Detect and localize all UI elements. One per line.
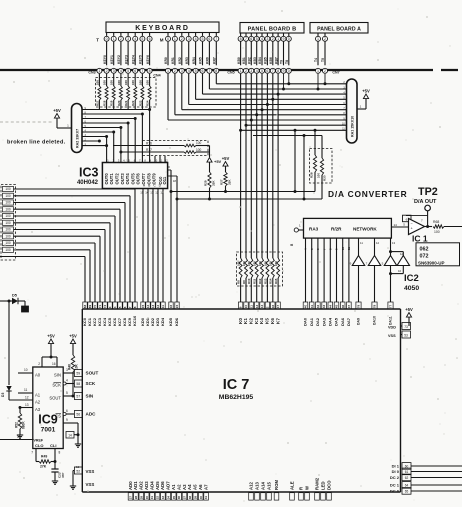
svg-text:100: 100 (269, 261, 273, 266)
svg-text:57: 57 (76, 394, 80, 398)
svg-text:1: 1 (240, 69, 242, 73)
svg-text:DA6: DA6 (340, 317, 345, 326)
svg-text:KEY0: KEY0 (103, 55, 107, 64)
svg-text:T8: T8 (285, 60, 289, 64)
svg-text:A14: A14 (260, 482, 265, 490)
svg-text:45: 45 (335, 305, 339, 309)
svg-text:KB3: KB3 (253, 57, 257, 64)
svg-text:2: 2 (324, 37, 326, 41)
svg-text:73: 73 (404, 325, 408, 329)
svg-text:65: 65 (405, 489, 409, 493)
svg-text:SCK: SCK (52, 383, 61, 388)
svg-text:10: 10 (24, 368, 28, 372)
svg-text:R30: R30 (323, 175, 327, 181)
svg-text:DA2: DA2 (315, 317, 320, 326)
svg-text:3: 3 (250, 69, 252, 73)
svg-text:CN7: CN7 (332, 71, 339, 75)
svg-text:OUT6: OUT6 (136, 173, 141, 185)
svg-text:062: 062 (420, 247, 429, 253)
svg-text:R9: R9 (242, 280, 246, 284)
svg-text:3: 3 (113, 69, 115, 73)
svg-text:42: 42 (316, 305, 320, 309)
wire - DA9-DA11 buffered lines to IC7 (356, 266, 393, 326)
svg-text:M: M (160, 38, 164, 43)
svg-text:D/A CONVERTER: D/A CONVERTER (328, 189, 407, 199)
svg-text:K5: K5 (265, 318, 270, 324)
svg-text:OUT1: OUT1 (109, 173, 114, 185)
svg-text:15: 15 (17, 435, 21, 439)
svg-text:KR5: KR5 (199, 57, 203, 64)
svg-text:11: 11 (360, 241, 363, 245)
svg-text:5: 5 (256, 37, 258, 41)
svg-text:0: 0 (288, 69, 290, 73)
svg-text:13: 13 (25, 403, 29, 407)
svg-text:100: 100 (110, 80, 114, 85)
svg-text:100: 100 (263, 261, 267, 266)
svg-text:KB0: KB0 (237, 57, 241, 64)
svg-text:KB2: KB2 (248, 57, 252, 64)
svg-text:KR2: KR2 (178, 57, 182, 64)
svg-text:100: 100 (5, 241, 11, 245)
test point TP2 (425, 205, 431, 226)
svg-text:KEY4: KEY4 (131, 55, 135, 64)
connector CN7 - panel board A pins (314, 33, 339, 75)
svg-text:100: 100 (5, 207, 11, 211)
wire - DA0-DA7 data lines RA3 to IC7 (304, 238, 351, 302)
svg-text:100: 100 (5, 228, 11, 232)
svg-text:100: 100 (5, 194, 11, 198)
svg-text:KC10: KC10 (132, 315, 137, 326)
svg-text:69: 69 (88, 305, 92, 309)
svg-text:12: 12 (155, 191, 159, 195)
svg-text:R22: R22 (131, 100, 135, 106)
svg-text:6: 6 (208, 37, 210, 41)
svg-text:DA5: DA5 (334, 317, 339, 326)
svg-text:T4: T4 (314, 58, 318, 62)
svg-text:A2: A2 (35, 400, 41, 405)
wire - main horizontal board boundary (0, 69, 458, 71)
svg-text:100: 100 (253, 261, 257, 266)
svg-text:KEY3: KEY3 (124, 55, 128, 64)
svg-text:5: 5 (127, 69, 129, 73)
IC7 bottom pins AD0-AD7 A1-A7 (128, 481, 209, 500)
svg-text:VSS: VSS (86, 482, 95, 487)
svg-text:ADC: ADC (86, 412, 97, 417)
svg-text:AD2: AD2 (139, 481, 144, 490)
svg-text:2: 2 (38, 362, 40, 366)
svg-text:2: 2 (174, 69, 176, 73)
svg-text:6: 6 (149, 37, 151, 41)
op-amp IC9 7001 A/D converter (33, 367, 63, 449)
svg-text:A7: A7 (203, 484, 208, 490)
svg-text:11: 11 (249, 305, 253, 309)
svg-text:0: 0 (288, 37, 290, 41)
svg-text:10K: 10K (74, 363, 78, 370)
svg-text:14: 14 (68, 434, 72, 438)
svg-text:2: 2 (120, 37, 122, 41)
svg-text:13: 13 (151, 305, 155, 309)
svg-text:24: 24 (175, 305, 179, 309)
svg-text:SCK: SCK (86, 381, 96, 386)
svg-text:DA0: DA0 (303, 317, 308, 326)
svg-text:100: 100 (131, 80, 135, 85)
svg-text:R21: R21 (124, 100, 128, 106)
svg-text:IC 1: IC 1 (412, 234, 428, 244)
svg-text:39: 39 (193, 496, 197, 500)
ground for C23 (54, 478, 56, 481)
svg-text:16: 16 (169, 305, 173, 309)
svg-text:KEY1: KEY1 (110, 55, 114, 64)
svg-text:5: 5 (261, 69, 263, 73)
svg-text:CLO: CLO (35, 443, 43, 448)
svg-text:IC3: IC3 (79, 166, 99, 180)
resistor bus 100 ohm array (left edge, dashed group) (1, 185, 16, 261)
svg-text:AD6: AD6 (160, 481, 165, 490)
svg-text:KEY2: KEY2 (117, 55, 121, 64)
node RA3 input pin 1 (290, 224, 304, 247)
svg-text:K2: K2 (249, 318, 254, 324)
resistor array R17-R24 100 ohm on CN3 lines (dashed group) (95, 74, 156, 109)
svg-text:AD0: AD0 (128, 481, 133, 490)
svg-text:18: 18 (173, 179, 177, 183)
svg-text:D/A OUT: D/A OUT (414, 199, 437, 205)
svg-text:100: 100 (103, 80, 107, 85)
svg-text:KD4: KD4 (160, 317, 165, 326)
svg-text:6: 6 (134, 69, 136, 73)
svg-text:2: 2 (106, 69, 108, 73)
svg-text:40H042: 40H042 (77, 180, 99, 186)
svg-text:3: 3 (266, 37, 268, 41)
svg-text:4: 4 (66, 379, 68, 383)
svg-text:77: 77 (389, 305, 393, 309)
svg-text:broken line deleted.: broken line deleted. (7, 140, 66, 146)
svg-text:29: 29 (139, 496, 143, 500)
svg-text:1: 1 (174, 37, 176, 41)
svg-text:R14: R14 (269, 278, 273, 284)
svg-text:KB7: KB7 (274, 57, 278, 64)
svg-text:R15: R15 (274, 278, 278, 284)
svg-text:R27: R27 (220, 179, 224, 185)
svg-text:100: 100 (316, 173, 320, 178)
svg-text:1: 1 (98, 69, 100, 73)
svg-text:15: 15 (140, 191, 144, 195)
connector CN3 - keyboard T header pins (96, 33, 152, 43)
wire - KR0..KR7 lines with labels (164, 42, 216, 66)
ground for IC7 VSS (72, 483, 74, 486)
svg-text:1: 1 (113, 37, 115, 41)
svg-text:6: 6 (250, 37, 252, 41)
resistor R48 10K pull-up (67, 334, 78, 398)
ground for D5 (22, 306, 29, 312)
svg-text:OUT3: OUT3 (120, 173, 125, 185)
svg-text:6: 6 (202, 69, 204, 73)
svg-text:6: 6 (66, 409, 68, 413)
svg-text:4: 4 (188, 69, 190, 73)
svg-text:14: 14 (260, 305, 264, 309)
svg-text:4: 4 (256, 69, 258, 73)
svg-text:9: 9 (283, 37, 285, 41)
svg-text:100: 100 (5, 201, 11, 205)
svg-text:R68: R68 (433, 220, 439, 224)
svg-text:R11: R11 (253, 278, 257, 284)
svg-text:KEYBOARD: KEYBOARD (135, 25, 189, 32)
svg-text:3: 3 (127, 37, 129, 41)
svg-text:KB4: KB4 (258, 57, 262, 64)
wire - D5 to D3 link (8, 301, 10, 385)
svg-text:40: 40 (304, 305, 308, 309)
svg-text:R17: R17 (95, 100, 99, 106)
svg-text:R12: R12 (258, 278, 262, 284)
svg-text:AD1: AD1 (133, 481, 138, 490)
svg-text:OUT4: OUT4 (125, 173, 130, 185)
svg-text:KC6: KC6 (112, 317, 117, 326)
svg-text:A3: A3 (182, 484, 187, 490)
resistor R29 33K pull-up with +5V (204, 146, 222, 200)
svg-text:5: 5 (195, 69, 197, 73)
svg-text:4: 4 (134, 37, 136, 41)
svg-text:62: 62 (405, 476, 409, 480)
connector CN4 lower pins (153, 68, 218, 77)
svg-text:KB6: KB6 (269, 57, 273, 64)
svg-text:1: 1 (167, 69, 169, 73)
diode D3 (1, 386, 12, 400)
resistor R52 680K to ground (14, 408, 25, 433)
svg-text:7: 7 (141, 69, 143, 73)
svg-text:K7: K7 (275, 318, 280, 324)
svg-text:7: 7 (215, 37, 217, 41)
svg-text:8: 8 (215, 69, 217, 73)
wire - IC3 select lines A B C D to IC7 (140, 188, 163, 302)
svg-text:100: 100 (274, 261, 278, 266)
IC7 pin 53 VSS (388, 331, 411, 338)
svg-text:41: 41 (204, 496, 208, 500)
svg-text:7: 7 (208, 69, 210, 73)
svg-text:KR7: KR7 (213, 57, 217, 64)
resistor array R8-R15 100 ohm (dashed group) (237, 252, 283, 302)
svg-text:8: 8 (277, 69, 279, 73)
svg-text:T9: T9 (280, 60, 284, 64)
svg-text:10: 10 (341, 246, 345, 250)
svg-text:8: 8 (149, 69, 151, 73)
svg-text:1: 1 (317, 37, 319, 41)
svg-text:IC 7: IC 7 (223, 377, 250, 393)
IC7 top pins DA0-DA7 (303, 302, 352, 326)
svg-text:A6: A6 (198, 484, 203, 490)
svg-text:SOUT: SOUT (49, 396, 61, 401)
svg-text:KC2: KC2 (92, 317, 97, 326)
svg-text:KEY6: KEY6 (146, 55, 150, 64)
svg-text:7: 7 (272, 69, 274, 73)
svg-text:41: 41 (310, 305, 314, 309)
svg-text:13: 13 (255, 305, 259, 309)
svg-text:12: 12 (376, 241, 380, 245)
svg-text:KC3: KC3 (97, 317, 102, 326)
svg-text:+5V: +5V (214, 159, 222, 164)
svg-text:33: 33 (161, 496, 165, 500)
svg-text:100: 100 (5, 221, 11, 225)
wire - IC9 VREF line pin 15 (0, 435, 33, 440)
resistor R49 27K oscillator (31, 449, 60, 469)
svg-text:9: 9 (66, 418, 68, 422)
diode D5 (0, 294, 25, 307)
svg-text:KR0: KR0 (164, 57, 168, 64)
svg-text:5: 5 (202, 37, 204, 41)
svg-text:DA10: DA10 (373, 316, 377, 325)
svg-text:37: 37 (183, 496, 187, 500)
resistor R27 33K pull-up (220, 156, 232, 192)
svg-text:5: 5 (141, 37, 143, 41)
svg-text:KB1: KB1 (242, 57, 246, 64)
svg-text:DC 0: DC 0 (390, 489, 400, 494)
svg-text:RA2 33KX7: RA2 33KX7 (76, 129, 80, 148)
svg-text:61: 61 (405, 470, 409, 474)
svg-text:14: 14 (145, 191, 149, 195)
power +5V to IC7 VDD (405, 307, 413, 326)
svg-text:11: 11 (160, 191, 163, 195)
svg-text:28: 28 (134, 496, 138, 500)
svg-text:NETWORK: NETWORK (353, 227, 377, 232)
svg-text:12: 12 (156, 305, 160, 309)
svg-text:T5: T5 (321, 58, 325, 62)
svg-text:072: 072 (420, 254, 429, 260)
svg-text:A5: A5 (193, 484, 198, 490)
svg-text:KC8: KC8 (122, 317, 127, 326)
svg-text:100: 100 (242, 261, 246, 266)
svg-text:58: 58 (76, 382, 80, 386)
op-amp IC7 MB62H195 main CPU block (82, 309, 400, 492)
svg-text:SIN: SIN (54, 373, 61, 378)
svg-text:+5V: +5V (69, 334, 77, 339)
svg-text:3: 3 (188, 37, 190, 41)
op-amp IC3 40H042 key decoder (77, 159, 168, 189)
svg-text:16: 16 (52, 362, 56, 366)
svg-text:6: 6 (266, 69, 268, 73)
wire - RA2 pull-up taps to CN3 key lines (staircase) (82, 107, 151, 163)
wire - key common bus lines to IC7 (staircase) (0, 189, 135, 302)
panel board A label (310, 23, 368, 34)
svg-text:68: 68 (83, 305, 87, 309)
svg-text:4050: 4050 (404, 285, 419, 292)
svg-text:+5V: +5V (405, 307, 413, 312)
svg-text:K1: K1 (243, 318, 248, 324)
svg-text:2: 2 (324, 69, 326, 73)
svg-text:7: 7 (31, 451, 33, 455)
svg-text:2: 2 (181, 37, 183, 41)
svg-text:T: T (96, 38, 99, 43)
svg-text:100: 100 (5, 234, 11, 238)
svg-text:R/2R: R/2R (331, 227, 342, 232)
svg-text:R29: R29 (204, 180, 208, 186)
svg-text:32: 32 (156, 496, 160, 500)
svg-text:RA3: RA3 (309, 227, 319, 232)
chip options label 062 072 SN63900-UP (416, 243, 460, 266)
wire - stub pins into IC3 top right (155, 156, 165, 163)
ground for IC9 pins 9 14 (77, 441, 79, 444)
svg-text:100: 100 (124, 80, 128, 85)
svg-text:7001: 7001 (41, 427, 56, 434)
svg-text:8: 8 (240, 37, 242, 41)
wire - matrix rows 9-11 with taps (241, 125, 347, 135)
svg-text:36: 36 (177, 496, 181, 500)
svg-text:D3: D3 (1, 393, 5, 397)
wire - strobe line net A (170, 190, 316, 193)
svg-text:A13: A13 (254, 482, 259, 490)
wire - deleted broken line (0, 121, 52, 123)
svg-text:DC 1: DC 1 (390, 483, 400, 488)
svg-text:100: 100 (5, 248, 11, 252)
svg-text:R20: R20 (117, 100, 121, 106)
svg-text:27: 27 (129, 496, 133, 500)
wire - KEY0..KEY6 lines with labels (103, 42, 150, 66)
svg-text:7: 7 (245, 37, 247, 41)
svg-text:DA9: DA9 (357, 318, 361, 325)
svg-text:A1: A1 (35, 393, 41, 398)
IC7 pin 52 VSS with ground (73, 465, 94, 487)
svg-text:10: 10 (398, 269, 402, 273)
svg-text:ALE: ALE (289, 481, 294, 490)
svg-text:100: 100 (5, 187, 11, 191)
svg-text:2: 2 (272, 37, 274, 41)
svg-text:A1: A1 (171, 484, 176, 490)
svg-text:KB5: KB5 (264, 57, 268, 64)
svg-text:12: 12 (25, 396, 29, 400)
wire - IC9 serial lines to IC7 SOUT SCK SIN ADC (63, 368, 98, 418)
svg-text:LED: LED (320, 481, 325, 490)
svg-text:D5: D5 (12, 294, 17, 298)
resistor R68 100 on D/A output (425, 220, 462, 234)
svg-text:70: 70 (93, 305, 97, 309)
svg-text:RA1 15KX10: RA1 15KX10 (351, 116, 355, 137)
wire - IC9 A2 line with D3 (9, 396, 33, 401)
svg-text:100: 100 (196, 141, 202, 145)
IC7 right edge DI DC pins with output wires (390, 463, 462, 495)
keyboard block label (106, 22, 219, 33)
svg-text:4: 4 (261, 37, 263, 41)
svg-text:30: 30 (145, 496, 149, 500)
svg-text:DA4: DA4 (328, 317, 333, 326)
svg-text:33K: 33K (227, 179, 231, 185)
svg-text:44: 44 (328, 305, 332, 309)
svg-text:3: 3 (66, 368, 68, 372)
svg-text:11: 11 (161, 305, 165, 309)
wire - row taps down to strobe nets (294, 129, 306, 199)
svg-text:31: 31 (150, 496, 154, 500)
svg-text:34: 34 (166, 496, 170, 500)
op-amp IC1 output amplifier (391, 215, 427, 243)
svg-text:KC9: KC9 (127, 317, 132, 326)
svg-text:100: 100 (247, 261, 251, 266)
svg-text:KD6: KD6 (174, 317, 179, 326)
svg-text:46: 46 (341, 305, 345, 309)
svg-text:KR1: KR1 (171, 57, 175, 64)
svg-text:40: 40 (199, 496, 203, 500)
resistor network RA2 33Kx7 (72, 104, 83, 153)
svg-text:56: 56 (76, 412, 80, 416)
svg-text:VREF: VREF (34, 439, 44, 443)
svg-text:11: 11 (24, 388, 28, 392)
svg-text:R28: R28 (309, 172, 313, 178)
svg-text:0: 0 (106, 37, 108, 41)
svg-text:TP2: TP2 (418, 186, 438, 198)
svg-text:0: 0 (167, 37, 169, 41)
svg-text:38: 38 (188, 496, 192, 500)
svg-text:78: 78 (373, 305, 377, 309)
svg-text:9: 9 (283, 69, 285, 73)
svg-text:A12: A12 (248, 482, 253, 490)
svg-text:27K: 27K (40, 465, 47, 469)
wire - IC3 right pins routed down to IC7 (167, 165, 177, 302)
svg-text:MB62H195: MB62H195 (219, 394, 254, 401)
